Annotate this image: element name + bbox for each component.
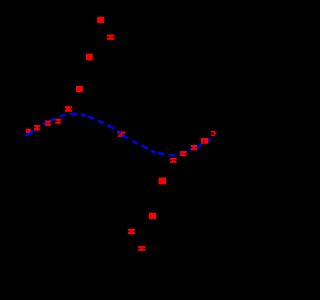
data point P2 (error bar with caps)	[34, 125, 40, 131]
data point P17 (error bar with caps)	[191, 145, 197, 150]
data point P11 (error bar with caps)	[128, 229, 135, 234]
curve dash dot inside marker P18	[203, 141, 205, 143]
data point P15 (error bar with caps)	[170, 158, 177, 163]
data point P5 (square marker with error caps)	[65, 106, 72, 112]
data point P6 (square marker)	[76, 86, 83, 92]
curve dash overlapping marker P1 corner	[29, 131, 33, 134]
data point P13 (square marker)	[149, 213, 156, 219]
data point P19 (error bar with caps)	[211, 131, 216, 136]
data point P12 (error bar with caps)	[138, 246, 145, 251]
curve dash overlapping marker P10 top cap	[118, 132, 121, 134]
fit curve (blue dashed)	[25, 114, 215, 155]
data point P1 (small square marker)	[26, 129, 31, 133]
data point P9 (error bar with caps)	[107, 35, 114, 40]
data point P7 (square marker)	[86, 54, 93, 61]
data point P8 (square marker)	[97, 17, 104, 23]
data point P4 (error bar with caps)	[55, 119, 61, 124]
data point P16 (error bar with caps)	[180, 151, 187, 156]
data point P18 (square marker)	[201, 138, 208, 144]
data point P3 (error bar with caps)	[45, 121, 51, 126]
data point P10 (error bar with caps)	[118, 132, 126, 137]
data point P14 (square marker)	[159, 178, 167, 185]
